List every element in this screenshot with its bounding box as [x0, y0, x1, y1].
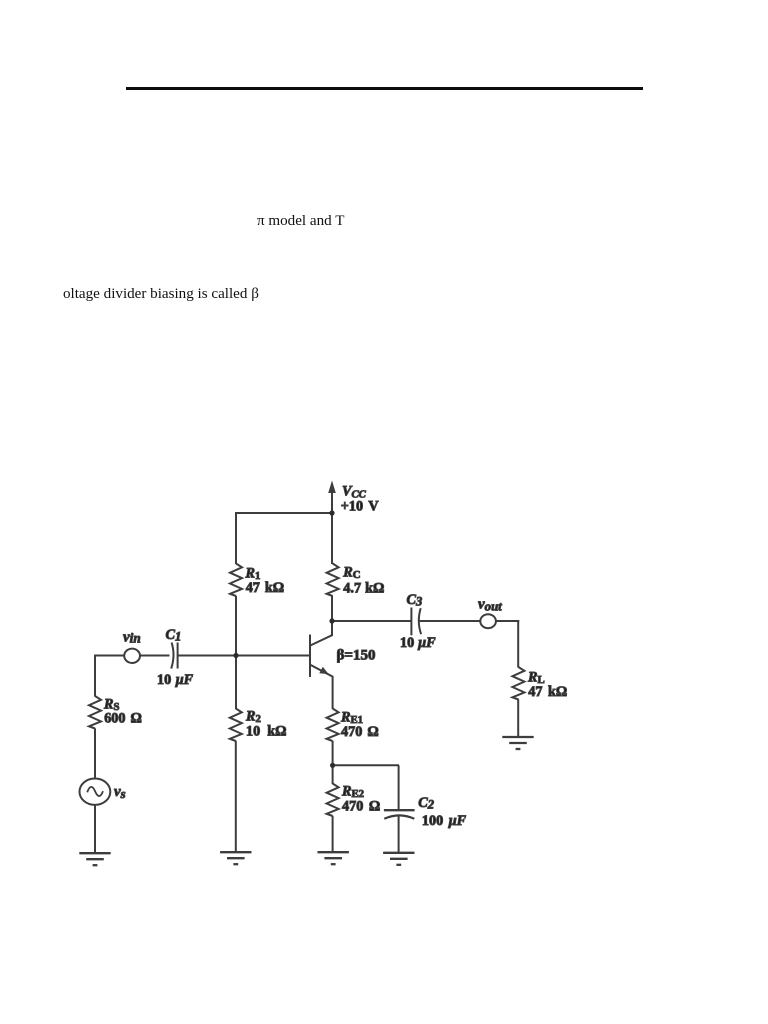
svg-text:C3: C3	[407, 592, 423, 609]
svg-text:10 kΩ: 10 kΩ	[246, 724, 287, 740]
svg-text:470 Ω: 470 Ω	[342, 799, 380, 815]
svg-text:600 Ω: 600 Ω	[104, 710, 142, 726]
svg-text:4.7 kΩ: 4.7 kΩ	[343, 580, 384, 596]
svg-text:C1: C1	[166, 627, 182, 644]
svg-text:RC: RC	[342, 565, 360, 582]
svg-text:100 μF: 100 μF	[422, 813, 467, 829]
svg-text:10 μF: 10 μF	[157, 672, 194, 688]
svg-text:C2: C2	[418, 795, 434, 812]
svg-text:R2: R2	[245, 709, 261, 726]
svg-text:10 μF: 10 μF	[400, 635, 436, 651]
svg-text:β=150: β=150	[337, 648, 376, 664]
svg-text:vs: vs	[114, 784, 126, 801]
svg-text:47 kΩ: 47 kΩ	[528, 684, 567, 700]
svg-text:+10 V: +10 V	[341, 499, 380, 515]
svg-text:vout: vout	[478, 596, 502, 613]
svg-text:47 kΩ: 47 kΩ	[246, 580, 285, 596]
svg-text:RE2: RE2	[341, 784, 364, 801]
svg-text:vin: vin	[123, 629, 141, 645]
svg-text:470 Ω: 470 Ω	[341, 724, 379, 740]
